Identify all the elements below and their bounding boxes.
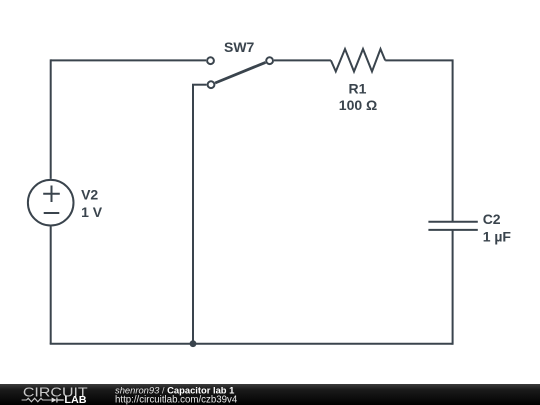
switch SW7 left terminal [207, 57, 214, 64]
logo resistor zigzag [22, 398, 52, 402]
wire left vertical lower (V2 circle to bottom wire) [50, 227, 52, 344]
svg-text:V2: V2 [81, 187, 98, 203]
svg-text:1 V: 1 V [81, 204, 103, 220]
switch SW7 blade [215, 62, 265, 83]
switch SW7 right terminal [266, 57, 273, 64]
logo diode [52, 398, 57, 403]
V2 plus sign [43, 186, 60, 203]
wire C2 bottom to bottom-right corner [452, 230, 454, 345]
svg-text:100 Ω: 100 Ω [339, 97, 377, 113]
svg-text:LAB: LAB [64, 395, 86, 405]
wire top-left horizontal (V2 top to SW7 left terminal) [51, 59, 206, 61]
svg-text:SW7: SW7 [224, 39, 255, 55]
svg-text:shenron93 / Capacitor lab 1: shenron93 / Capacitor lab 1 [115, 384, 234, 395]
voltage source V2 circle [28, 180, 74, 226]
wire bottom horizontal [50, 343, 453, 345]
resistor R1 zigzag [331, 49, 385, 72]
wire R1 to top-right corner and down to C2 [385, 60, 452, 221]
svg-text:1 µF: 1 µF [483, 229, 512, 245]
capacitor C2 top plate [428, 221, 477, 223]
V2 minus sign [44, 212, 60, 214]
wire elbow to SW7 lower terminal [192, 84, 207, 86]
switch SW7 lower terminal [208, 81, 215, 88]
svg-text:C2: C2 [483, 211, 501, 227]
svg-text:R1: R1 [349, 80, 367, 96]
svg-text:http://circuitlab.com/czb39v4: http://circuitlab.com/czb39v4 [115, 395, 238, 405]
wire middle vertical (SW7 lower terminal to bottom junction) [192, 85, 194, 344]
wire left vertical upper (top corner to V2 circle) [50, 59, 52, 178]
footer bar [0, 384, 540, 405]
capacitor C2 bottom plate [428, 229, 477, 231]
wire SW7 right terminal to R1 [274, 59, 331, 61]
junction node (bottom) [190, 340, 197, 347]
